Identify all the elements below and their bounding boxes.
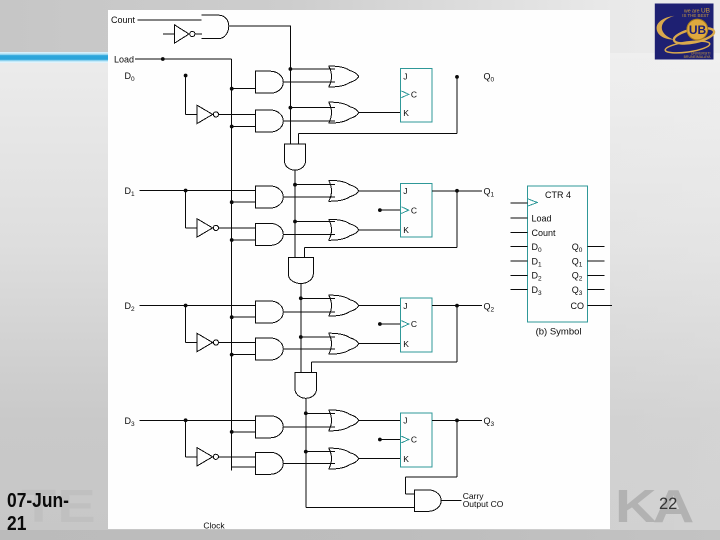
CTR4 pin stub CO [588,304,612,306]
wire inverter row 0 output [218,113,255,115]
wire chain-3 branch J-OR row3 [306,412,335,414]
wire J-OR row 2 to FF J [359,305,401,307]
CTR4 left pin stub 6 [511,274,528,276]
CTR4 left pin stub 3 [511,232,528,234]
JK flip-flop FF3 [401,413,432,467]
node clock junction row 1 [378,208,382,212]
white figure panel [108,10,611,530]
node Q0 feedback [455,75,459,79]
node Q3 feedback [455,419,459,423]
wire Q3 feedback horizontal [406,476,457,478]
node chain-2 rail to K-OR row2 [299,335,303,339]
wire Load rail branch 3 [232,201,256,203]
node chain-3 rail to K-OR row3 [304,450,308,454]
wire FF1 Q output [432,190,482,192]
OR gate K row 2 [329,333,359,354]
watermark KA [615,483,691,529]
wire Q3 feedback vertical [456,420,458,477]
wire clock stub row 2 [380,323,401,325]
AND gate G1 (Count enable) [202,15,229,38]
node Load rail junction 3 [230,200,234,204]
OR gate J row 0 [329,66,359,87]
wire J-OR row 3 to FF J [359,419,401,421]
wire K-OR row 2 to FF K [359,343,401,345]
wire K-AND row 0 output [283,120,335,122]
wire J-AND row 1 output [283,196,335,198]
wire FF3 Q output [432,419,482,421]
node D2 branch [184,304,188,308]
wire inverter row 2 output [218,342,255,344]
node on Load wire [161,57,165,61]
node chain-1 rail to J-OR row1 [293,183,297,187]
wire D1 to inverter input [186,227,197,229]
CTR4 left pin stub 5 [511,260,528,262]
OR gate J row 1 [329,180,359,201]
node Load rail junction 5 [230,315,234,319]
JK flip-flop FF0 [401,68,432,122]
wire Load horizontal [135,58,232,60]
wire Count to gate G1 [138,19,202,21]
wire J-OR row 1 to FF J [359,190,401,192]
wire Q0 feedback horizontal [298,133,457,135]
wire J-AND row 2 output [283,311,335,313]
CTR4 right pin stub Q1 [588,260,605,262]
AND gate J row 1 [255,186,283,208]
JK flip-flop FF2 [401,298,432,352]
wire FF2 Q output [432,305,482,307]
date [7,489,75,535]
node Load rail junction 7 [230,430,234,434]
wire K-AND row 1 output [283,233,335,235]
page number [659,495,677,514]
AND gate carry output [415,490,442,512]
wire count rail vertical [289,25,291,144]
AND gate K row 1 [255,223,283,245]
wire Load rail branch 1 [232,88,256,90]
swoosh ellipse 2 [665,39,711,55]
wire D3 input line [140,419,256,421]
wire J-AND row 0 output [283,81,335,83]
UB circle [687,19,708,40]
wire chain-2 output rail [300,284,302,373]
wire D1 input line [140,190,256,192]
inverter row 1 [197,219,213,237]
wire chain-1 branch K-OR row1 [295,221,335,223]
CTR4 right pin stub Q3 [588,289,605,291]
CTR4 left pin stub 1 [511,202,528,204]
inverter row 3 [197,448,213,466]
swoosh ellipse 1 [673,25,716,46]
wire inverter row 3 output [218,456,255,458]
node chain-3 rail to J-OR row3 [304,411,308,415]
CTR4 left pin stub 4 [511,246,528,248]
node Load rail junction 6 [230,353,234,357]
wire chain-1 branch J-OR row1 [295,184,335,186]
AND gate K row 3 [255,452,283,474]
wire clock stub row 3 [380,439,401,441]
wire Q0 feedback vertical [456,77,458,134]
node clock junction row 3 [378,438,382,442]
CTR4 left pin stub 7 [511,289,528,291]
wire Load rail branch 4 [232,239,256,241]
OR gate K row 0 [329,102,359,123]
node Load rail junction 4 [230,238,234,242]
OR gate J row 2 [329,295,359,316]
wire Q1 feedback drop to chain AND [304,248,306,258]
wire Q3 feedback to carry AND [406,493,415,495]
wire carry AND output [442,500,462,502]
wire Q2 feedback horizontal [311,361,457,363]
wire chain-3 output rail [305,398,307,507]
wire count rail branch to J-OR row0 [290,68,335,70]
inverter row 0 [197,105,213,123]
node D3 branch [184,418,188,422]
blue accent stripe [0,52,110,63]
wire Load rail branch 8 (corner) [232,466,256,468]
node clock junction row 2 [378,322,382,326]
wire K-OR row 3 to FF K [359,458,401,460]
node Q1 feedback [455,189,459,193]
wire inverter row 1 output [218,227,255,229]
wire chain-3 branch K-OR row3 [306,451,335,453]
CTR4 right pin stub Q2 [588,274,605,276]
node count rail to K-OR row0 [289,106,293,110]
wire K-OR row 0 to FF K [359,112,401,114]
wire J-AND row 3 output [283,426,335,428]
inverter row 2 [197,333,213,351]
wire D3 vertical to inverter [185,420,187,457]
OR gate J row 3 [329,410,359,431]
wire chain-3 rail to carry AND [306,506,415,508]
wire Q1 feedback horizontal [305,247,458,249]
wire chain-1 output rail [294,170,296,257]
wire Q2 feedback vertical [456,306,458,362]
node D1 branch [184,189,188,193]
wire Q0 feedback drop to chain AND [297,134,299,145]
wire D2 input line [140,305,256,307]
wire clock stub row 1 [380,209,401,211]
wire chain-2 branch J-OR row2 [301,297,335,299]
AND gate J row 2 [255,301,283,323]
wire Load rail branch 2 [232,126,256,128]
wire Load rail vertical [231,59,233,470]
AND gate chain 2 [288,258,313,284]
wire K-AND row 3 output [283,462,335,464]
wire Load rail branch 7 [232,431,256,433]
AND gate chain 3 [295,372,317,398]
svg-text:BRUNEIMALAYA: BRUNEIMALAYA [684,55,712,59]
wire Q1 feedback vertical [456,191,458,248]
node D0 branch [184,74,188,78]
svg-text:UB: UB [689,23,707,37]
AND gate J row 0 [255,71,283,93]
wire Load rail branch 5 [232,316,256,318]
svg-text:IS THE BEST: IS THE BEST [682,13,709,18]
wire D1 vertical to inverter [185,191,187,228]
wire D0 vertical to inverter [185,76,187,115]
JK flip-flop FF1 [401,183,432,237]
CTR4 clock chevron [527,199,537,207]
OR gate K row 3 [329,448,359,469]
wire D3 to inverter input [186,456,197,458]
AND gate J row 3 [255,416,283,438]
wire Load rail branch 6 [232,354,256,356]
wire count rail branch to K-OR row0 [290,107,335,109]
AND gate K row 2 [255,338,283,360]
watermark TE [21,483,97,529]
wire D2 vertical to inverter [185,306,187,343]
wire K-AND row 2 output [283,348,335,350]
OR gate K row 1 [329,219,359,240]
AND gate K row 0 [255,110,283,132]
wire G1 output to count rail [229,25,291,27]
inverter G2 (Load invert) [174,25,189,43]
AND gate chain 1 [284,144,305,170]
node chain-1 rail to K-OR row1 [293,220,297,224]
crescent [657,16,675,40]
wire inverter G2 output to gate G1 [195,33,202,35]
CTR4 right pin stub Q0 [588,246,605,248]
node Q2 feedback [455,304,459,308]
CTR4 left pin stub 2 [511,217,528,219]
node Load rail junction 1 [230,87,234,91]
wire Q2 feedback drop to chain AND [310,362,312,372]
wire D2 to inverter input [186,342,197,344]
wire chain-2 branch K-OR row2 [301,336,335,338]
node chain-2 rail to J-OR row2 [299,296,303,300]
wire Q3 feedback drop [405,477,407,494]
wire D0 to inverter input [186,113,197,115]
CTR4 symbol box [527,186,587,322]
node Load rail junction 2 [230,125,234,129]
inverter G2 input stub [163,33,174,35]
wire K-OR row 1 to FF K [359,229,401,231]
node count rail to J-OR row0 [289,67,293,71]
